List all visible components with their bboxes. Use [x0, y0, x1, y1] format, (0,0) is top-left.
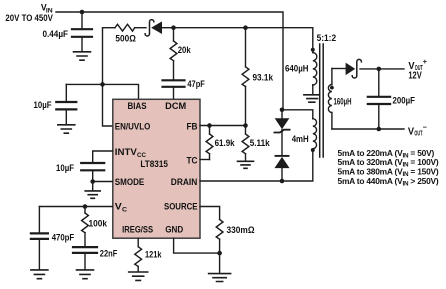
- label VIN: [5, 3, 53, 24]
- svg-text:12V: 12V: [408, 70, 421, 81]
- winding 4mH: [313, 119, 317, 149]
- wire resistor to diode: [135, 27, 146, 29]
- ground under 121k: [129, 272, 148, 280]
- svg-text:IREG/SS: IREG/SS: [122, 225, 153, 235]
- resistor 5.11k: [242, 126, 249, 161]
- svg-text:TC: TC: [187, 155, 198, 165]
- svg-text:−: −: [423, 123, 427, 132]
- node FB-5.11k: [243, 123, 248, 128]
- zener diode clamp: [274, 110, 289, 155]
- svg-text:5mA to 440mA (VIN > 250V): 5mA to 440mA (VIN > 250V): [338, 176, 439, 188]
- svg-text:200µF: 200µF: [393, 96, 416, 106]
- capacitor C 22nF: [73, 247, 97, 269]
- node clamp-DRAIN: [280, 179, 285, 184]
- svg-text:SOURCE: SOURCE: [164, 202, 198, 212]
- svg-text:INTV: INTV: [115, 147, 138, 157]
- wire diode to VOUT+: [360, 68, 404, 70]
- wire VOUT- rail: [332, 128, 404, 130]
- svg-text:LT8315: LT8315: [140, 159, 168, 169]
- svg-text:100k: 100k: [89, 219, 108, 229]
- node SOURCE-GND junction: [217, 251, 222, 256]
- capacitor C 200uF: [368, 69, 390, 129]
- node VC junction: [83, 204, 88, 209]
- capacitor C 0.44uF: [72, 12, 92, 51]
- wire snubber to transformer: [174, 28, 313, 53]
- node snubber-93.1k junction: [243, 25, 248, 30]
- resistor 330mohm: [216, 220, 223, 254]
- pin label VC: [115, 202, 128, 214]
- svg-text:4mH: 4mH: [292, 134, 309, 144]
- capacitor C 10uF input: [56, 84, 76, 124]
- wire INTVCC pin: [93, 151, 113, 162]
- node VIN junction: [80, 10, 85, 15]
- svg-text:20k: 20k: [178, 45, 192, 55]
- note current ranges: [338, 148, 439, 187]
- svg-text:10µF: 10µF: [34, 100, 52, 110]
- ground under 22nF: [77, 270, 94, 279]
- wire snubber row: [103, 27, 115, 29]
- svg-text:93.1k: 93.1k: [253, 73, 274, 83]
- svg-text:CC: CC: [137, 152, 146, 159]
- svg-text:10µF: 10µF: [56, 163, 74, 173]
- IC LT8315 body: [113, 99, 200, 238]
- diode D1 (points left, curled cathode): [145, 20, 173, 36]
- vertical wire 500ohm to EN/UVLO: [103, 28, 113, 126]
- ground under 640uH: [304, 95, 320, 102]
- svg-text:47pF: 47pF: [187, 79, 205, 89]
- winding 160uH secondary: [328, 69, 331, 130]
- node snubber-20k junction: [171, 25, 176, 30]
- svg-text:22nF: 22nF: [100, 248, 118, 258]
- wire secondary to diode: [332, 68, 346, 70]
- diode clamp lower: [275, 156, 288, 181]
- capacitor C 10uF intvcc: [81, 163, 104, 182]
- svg-text:470pF: 470pF: [52, 233, 75, 243]
- capacitor C 47pF: [163, 80, 185, 99]
- ground under 330mohm: [209, 253, 231, 281]
- svg-text:DCM: DCM: [165, 101, 186, 111]
- ground under 10uF input: [58, 125, 75, 133]
- svg-text:5:1:2: 5:1:2: [317, 33, 337, 43]
- svg-text:EN/UVLO: EN/UVLO: [115, 121, 151, 131]
- wire BIAS bend: [66, 84, 138, 99]
- node 640uH phase dot: [311, 48, 315, 52]
- resistor 20k: [170, 28, 177, 79]
- wire VIN rail top: [56, 12, 283, 110]
- resistor 121k: [135, 247, 142, 271]
- ground under 5.11k: [238, 161, 254, 168]
- node BIAS junction: [100, 82, 105, 87]
- svg-text:640µH: 640µH: [285, 64, 309, 74]
- node FB-61.9k: [207, 123, 212, 128]
- node 4mH phase dot: [311, 148, 315, 152]
- wire VIN to clamp node: [282, 110, 313, 119]
- resistor 93.1k: [242, 28, 249, 126]
- svg-text:330mΩ: 330mΩ: [227, 225, 255, 235]
- svg-text:SMODE: SMODE: [115, 177, 145, 187]
- wire TC row: [200, 159, 210, 161]
- wire DRAIN: [200, 151, 313, 181]
- wire GND pin: [174, 238, 220, 253]
- svg-text:0.44µF: 0.44µF: [43, 29, 69, 39]
- winding 640uH primary: [313, 53, 317, 95]
- resistor 100k: [82, 207, 89, 246]
- node VOUT+ junction: [377, 67, 382, 72]
- node 160uH phase dot: [330, 86, 334, 90]
- wire SOURCE: [200, 207, 220, 220]
- wire SMODE pin: [93, 181, 113, 183]
- diode D2 output rectifier: [346, 59, 361, 78]
- label VOUT-: [408, 123, 427, 138]
- wire VC row: [39, 206, 112, 208]
- svg-text:20V TO 450V: 20V TO 450V: [5, 13, 53, 23]
- svg-text:5.11k: 5.11k: [250, 138, 271, 148]
- ground under 470pF: [31, 270, 48, 279]
- node SMODE junction: [90, 179, 95, 184]
- resistor 61.9k: [206, 126, 213, 160]
- svg-text:121k: 121k: [145, 250, 162, 260]
- svg-text:500Ω: 500Ω: [115, 34, 136, 44]
- transformer core: [320, 44, 324, 157]
- svg-text:OUT: OUT: [414, 128, 422, 137]
- svg-text:BIAS: BIAS: [128, 101, 147, 111]
- ground under SMODE: [85, 182, 100, 199]
- svg-text:V: V: [408, 127, 414, 138]
- wire IREG/SS pin: [137, 238, 139, 247]
- resistor 500ohm: [115, 24, 135, 31]
- node VOUT- junction: [377, 127, 382, 132]
- svg-text:C: C: [122, 207, 127, 214]
- pin label INTVCC: [115, 147, 147, 159]
- node clamp top: [280, 108, 285, 113]
- svg-text:DRAIN: DRAIN: [171, 177, 198, 187]
- capacitor C 470pF: [31, 207, 48, 270]
- wire FB row: [200, 125, 246, 127]
- svg-text:GND: GND: [165, 225, 183, 235]
- svg-text:+: +: [423, 57, 427, 66]
- label VOUT+: [408, 57, 427, 81]
- svg-text:61.9k: 61.9k: [215, 138, 236, 148]
- svg-text:FB: FB: [187, 121, 198, 131]
- svg-text:160µH: 160µH: [334, 97, 352, 107]
- ground under 0.44uF: [74, 52, 91, 60]
